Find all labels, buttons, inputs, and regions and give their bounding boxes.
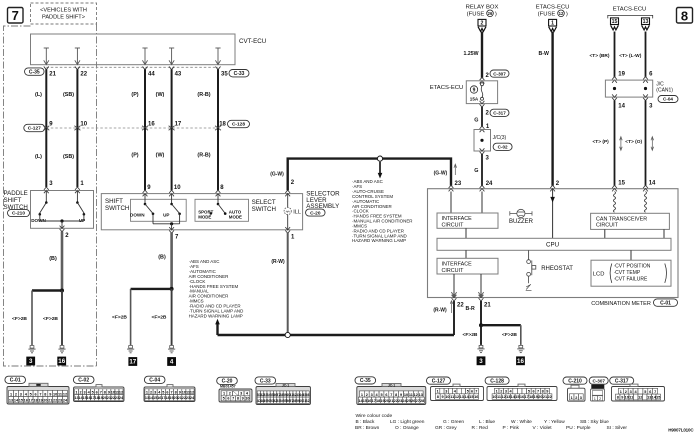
svg-text:(R-B): (R-B) <box>197 92 210 98</box>
svg-text:7: 7 <box>100 390 102 394</box>
wire B-R ground branch <box>481 325 521 345</box>
pin 1 select bottom <box>285 227 295 241</box>
svg-text:3: 3 <box>580 396 582 400</box>
svg-text:2: 2 <box>500 390 502 394</box>
svg-text:1: 1 <box>437 390 439 394</box>
fuse 9 15A <box>470 83 484 102</box>
svg-text:16: 16 <box>474 395 478 399</box>
label SPORT MODE <box>198 210 213 220</box>
connector pinout C-127 <box>427 377 484 401</box>
wire B-W to meter pin 2 <box>539 32 553 186</box>
shift DOWN switch <box>130 194 154 224</box>
svg-text:11: 11 <box>450 395 454 399</box>
pin 19 J/C CAN1 <box>612 72 626 83</box>
wire (W) to shift pin 10 <box>171 128 173 190</box>
svg-text:LCD: LCD <box>593 272 605 278</box>
wire colour label (SB) upper <box>63 92 74 98</box>
svg-text:62: 62 <box>306 399 310 403</box>
svg-text:MODE: MODE <box>229 215 242 220</box>
pin 18 mark C-127 row <box>215 121 227 130</box>
svg-text:V : Violet: V : Violet <box>533 425 553 431</box>
svg-text:CPU: CPU <box>546 242 559 249</box>
svg-text:20: 20 <box>43 399 47 403</box>
svg-text:2: 2 <box>575 396 577 400</box>
label RHEOSTAT <box>541 266 573 272</box>
label (R-W) near pin 22 <box>433 301 452 314</box>
connector pinout C-210 <box>563 377 587 401</box>
junction circle (R-W) <box>285 332 290 337</box>
svg-text:8: 8 <box>44 392 46 396</box>
dashed connector line C-127/C-128 row <box>46 127 218 129</box>
ground shift right <box>167 346 176 366</box>
svg-text:7: 7 <box>390 393 392 397</box>
svg-text:C-04: C-04 <box>663 97 673 102</box>
svg-text:7: 7 <box>475 390 477 394</box>
svg-text:C-128: C-128 <box>232 122 245 128</box>
svg-text:19: 19 <box>38 399 42 403</box>
pin 3 J/C bottom <box>480 148 490 161</box>
svg-text:16: 16 <box>517 358 524 365</box>
system list (select switch) <box>352 179 413 243</box>
svg-text:13: 13 <box>419 393 423 397</box>
wire B-R ground main <box>480 325 482 345</box>
svg-text:ETACS-ECU: ETACS-ECU <box>536 5 570 11</box>
svg-text:INTERFACE: INTERFACE <box>442 216 473 222</box>
connector pinout C-20 <box>217 377 252 402</box>
svg-text:B-R: B-R <box>466 306 475 312</box>
svg-text:9: 9 <box>546 390 548 394</box>
svg-text:(FUSE: (FUSE <box>538 11 556 17</box>
svg-text:1: 1 <box>594 397 596 401</box>
pin 2 C-317 <box>480 101 509 117</box>
svg-text:7: 7 <box>39 392 41 396</box>
svg-text:17: 17 <box>129 359 136 366</box>
svg-text:): ) <box>495 11 497 17</box>
svg-text:23: 23 <box>58 399 62 403</box>
svg-text:5: 5 <box>467 390 469 394</box>
svg-text:C-01: C-01 <box>10 378 21 384</box>
pin 3 below J/C CAN1 <box>643 94 653 109</box>
wire colour label (P) upper <box>131 92 138 98</box>
wire CPU to LCD <box>630 250 632 260</box>
svg-text:17: 17 <box>524 395 528 399</box>
wire (R-B) 35 upper <box>217 69 219 128</box>
pin 8 select <box>216 185 225 197</box>
svg-text:9: 9 <box>621 396 623 400</box>
svg-text:6: 6 <box>96 390 98 394</box>
svg-text:12: 12 <box>414 393 418 397</box>
svg-text:6: 6 <box>166 390 168 394</box>
label AUTO MODE <box>229 210 242 220</box>
svg-text:2: 2 <box>229 392 231 396</box>
pin 10 mark C-127 row <box>74 121 87 130</box>
wire (G-W) select pin 2 to meter pin 23 <box>288 159 451 191</box>
svg-text:CVT-ECU: CVT-ECU <box>239 38 266 45</box>
svg-text:C-35: C-35 <box>360 378 371 384</box>
svg-text:16: 16 <box>58 358 65 365</box>
svg-text:<T> (P): <T> (P) <box>593 139 610 145</box>
interface circuit box lower <box>437 258 498 274</box>
wire (R-B) to select pin 8 <box>217 128 219 190</box>
svg-text:12: 12 <box>638 396 642 400</box>
svg-text:C-128: C-128 <box>490 378 504 384</box>
select mode switch <box>210 194 227 215</box>
svg-text:15: 15 <box>515 395 519 399</box>
label <F>2B paddle left <box>12 316 27 322</box>
svg-text:15: 15 <box>469 395 473 399</box>
svg-text:(P): (P) <box>131 92 138 98</box>
svg-text:CAN TRANSCEIVER: CAN TRANSCEIVER <box>596 216 647 222</box>
svg-text:9: 9 <box>179 390 181 394</box>
pin 14 below J/C CAN1 <box>612 94 626 109</box>
wire (P) 44 upper <box>144 69 146 128</box>
pin 24 label <box>486 181 493 187</box>
switch box SELECTOR LEVER ASSEMBLY <box>101 194 302 230</box>
svg-text:7: 7 <box>654 390 656 394</box>
svg-text:(W): (W) <box>156 153 165 159</box>
svg-text:3: 3 <box>479 358 483 365</box>
pin 3 paddle <box>44 181 53 193</box>
wire (B) from shift pin 7 <box>158 233 171 289</box>
svg-text:·CVT TEMP: ·CVT TEMP <box>614 270 641 276</box>
svg-text:L : Blue: L : Blue <box>479 419 495 425</box>
svg-text:ILL: ILL <box>293 210 301 216</box>
page connector ETACS fuse 12 <box>549 19 557 31</box>
wire colour label (SB) lower <box>63 154 74 160</box>
svg-text:1: 1 <box>496 390 498 394</box>
svg-text:ETACS-ECU: ETACS-ECU <box>613 7 647 13</box>
svg-text:J/C(3): J/C(3) <box>493 135 507 141</box>
svg-text:12: 12 <box>455 395 459 399</box>
svg-text:BR : Brown: BR : Brown <box>355 425 380 431</box>
pin 1 J/C top <box>480 124 490 132</box>
svg-text:C-317: C-317 <box>615 378 629 384</box>
svg-text:8: 8 <box>681 8 688 23</box>
page connector relay box fuse 26 <box>478 19 486 31</box>
pin 2 label meter <box>556 181 560 187</box>
updown arrow O <box>651 137 654 151</box>
wire colour label (P) lower <box>131 153 138 159</box>
svg-text:2: 2 <box>366 393 368 397</box>
label <T> (O) <box>625 139 642 145</box>
svg-text:G : Green: G : Green <box>443 419 464 425</box>
svg-text:23: 23 <box>455 181 462 187</box>
svg-text:SI : Silver: SI : Silver <box>607 425 628 431</box>
wire colour label (W) upper <box>156 92 165 98</box>
wire colour label (L) lower <box>35 154 42 160</box>
svg-text:<T> (BR): <T> (BR) <box>590 53 610 59</box>
svg-text:·CVT FAILURE: ·CVT FAILURE <box>614 277 648 283</box>
svg-text:10: 10 <box>245 397 249 401</box>
svg-text:CIRCUIT: CIRCUIT <box>442 222 465 228</box>
svg-text:COMBINATION METER: COMBINATION METER <box>591 301 651 307</box>
svg-text:6: 6 <box>34 392 36 396</box>
shift switch common bus <box>153 222 180 230</box>
svg-text:W : White: W : White <box>511 419 532 425</box>
svg-text:5: 5 <box>644 390 646 394</box>
label <F>2B meter left <box>463 332 478 338</box>
pin 15 meter <box>618 181 625 187</box>
label (G-W) left <box>270 171 284 177</box>
svg-text:14: 14 <box>649 181 656 187</box>
junction box J/C (CAN1) C-04 <box>605 80 678 102</box>
wire pin2 to CPU with arrow <box>550 189 555 239</box>
svg-text:12: 12 <box>190 390 194 394</box>
svg-text:44: 44 <box>148 72 155 78</box>
svg-text:C-02: C-02 <box>498 144 508 149</box>
svg-text:15: 15 <box>618 181 625 187</box>
svg-text:3: 3 <box>630 390 632 394</box>
svg-text:UP: UP <box>163 213 169 218</box>
wire colour label (R-B) upper <box>197 92 210 98</box>
svg-text:14: 14 <box>618 103 625 109</box>
label <F>2B shift left <box>112 315 127 321</box>
svg-text:18: 18 <box>529 395 533 399</box>
svg-text:<F>2B: <F>2B <box>463 332 478 338</box>
page connector CAN 15 <box>611 18 619 30</box>
svg-text:JC-1: JC-1 <box>388 384 395 388</box>
svg-text:21: 21 <box>48 399 52 403</box>
svg-text:7: 7 <box>232 397 234 401</box>
svg-text:9: 9 <box>49 392 51 396</box>
connector pinout C-02 <box>73 376 124 401</box>
svg-text:5: 5 <box>162 390 164 394</box>
svg-text:19: 19 <box>618 72 625 78</box>
svg-text:22: 22 <box>53 399 57 403</box>
svg-text:C-317: C-317 <box>493 110 506 115</box>
svg-text:Wire colour code: Wire colour code <box>356 413 393 419</box>
svg-text:10: 10 <box>492 395 496 399</box>
wire (R-W) horizontal run <box>218 334 455 336</box>
svg-text:6: 6 <box>227 397 229 401</box>
svg-text:SB : Sky blue: SB : Sky blue <box>580 419 609 425</box>
svg-text:3: 3 <box>29 358 33 365</box>
svg-text:8: 8 <box>104 390 106 394</box>
svg-text:·CVT POSITION: ·CVT POSITION <box>614 264 651 270</box>
ECU box CVT-ECU <box>31 34 267 65</box>
svg-text:MB01457: MB01457 <box>220 385 236 389</box>
wire B-R from pin 21 <box>466 301 482 325</box>
svg-text:18: 18 <box>219 121 226 127</box>
bracket ETACS CAN <box>608 15 653 18</box>
svg-text:<F>2B: <F>2B <box>12 316 27 322</box>
svg-text:GR : Grey: GR : Grey <box>435 425 457 431</box>
svg-text:35: 35 <box>221 72 228 78</box>
svg-text:CIRCUIT: CIRCUIT <box>442 268 465 274</box>
ground paddle right <box>57 346 66 366</box>
svg-text:21: 21 <box>484 302 491 308</box>
svg-text:5: 5 <box>30 392 32 396</box>
svg-text:16: 16 <box>24 399 28 403</box>
svg-text:6: 6 <box>385 393 387 397</box>
svg-text:CIRCUIT: CIRCUIT <box>596 223 619 229</box>
svg-text:2: 2 <box>599 397 601 401</box>
svg-text:12: 12 <box>559 11 564 16</box>
svg-text:21: 21 <box>49 72 56 78</box>
paddle switch common bus <box>40 219 84 228</box>
page connector CAN 13 <box>642 18 650 30</box>
junction circle (G-W) <box>377 156 382 161</box>
svg-text:8: 8 <box>617 396 619 400</box>
svg-text:PU : Purple: PU : Purple <box>566 425 591 431</box>
svg-text:C-35: C-35 <box>29 69 40 75</box>
label SHIFT SWITCH <box>105 198 129 212</box>
svg-text:LG : Light green: LG : Light green <box>390 419 425 425</box>
wire (W) 43 upper <box>171 69 173 128</box>
svg-text:10: 10 <box>174 185 181 191</box>
pin 22 label <box>457 302 464 308</box>
svg-text:BUZZER: BUZZER <box>509 219 534 225</box>
svg-text:24: 24 <box>486 181 493 187</box>
svg-text:8: 8 <box>237 397 239 401</box>
svg-text:1: 1 <box>620 390 622 394</box>
switch box PADDLE SHIFT SWITCH C-210 <box>31 191 94 229</box>
svg-text:SHIFT: SHIFT <box>105 198 123 205</box>
label BUZZER <box>509 219 534 225</box>
svg-text:RHEOSTAT: RHEOSTAT <box>541 266 573 272</box>
connector pinout C-307 <box>589 377 608 401</box>
svg-text:15: 15 <box>19 399 23 403</box>
wire (B) from paddle pin 2 <box>49 232 62 291</box>
svg-text:15: 15 <box>656 396 660 400</box>
connector label C-127 <box>24 124 45 131</box>
svg-text:(B): (B) <box>49 256 57 262</box>
shift UP switch <box>163 194 181 224</box>
svg-text:8: 8 <box>395 393 397 397</box>
connector pinout C-35 <box>355 377 426 405</box>
CVT-ECU output arrow 2 <box>75 48 80 65</box>
svg-text:26: 26 <box>488 11 493 16</box>
pin 44 mark <box>143 67 156 78</box>
connector pinout C-01 <box>5 376 69 404</box>
CVT-ECU output arrow 3 <box>142 48 147 65</box>
svg-text:PADDLE: PADDLE <box>4 190 28 197</box>
label <T> (BR) <box>590 53 610 59</box>
junction B-R ground <box>479 323 483 327</box>
svg-text:2: 2 <box>79 390 81 394</box>
twisted pair squiggle 14 <box>644 192 646 213</box>
svg-text:1: 1 <box>361 393 363 397</box>
svg-text:9: 9 <box>242 397 244 401</box>
dashed connector line C-35/C-33 row <box>46 66 218 68</box>
wire (L) 21 upper <box>45 69 47 128</box>
svg-text:SHIFT: SHIFT <box>4 197 22 204</box>
svg-text:<VEHICLES WITH: <VEHICLES WITH <box>40 8 87 14</box>
paddle UP switch <box>76 191 85 223</box>
svg-text:10: 10 <box>445 395 449 399</box>
svg-text:6: 6 <box>471 390 473 394</box>
pin 14 meter <box>649 181 656 187</box>
ground meter left <box>477 345 486 365</box>
label ETACS-ECU (CAN) <box>613 7 647 13</box>
svg-text:(R-W): (R-W) <box>433 308 447 314</box>
svg-text:11: 11 <box>58 392 62 396</box>
wire (SB) to paddle pin 1 <box>76 128 78 187</box>
pin 7 shift bottom <box>169 227 179 241</box>
svg-text:HAZARD WARNING LAMP: HAZARD WARNING LAMP <box>189 313 243 318</box>
meter box COMBINATION METER C-01 <box>428 189 679 298</box>
wire shift ground branch <box>131 289 172 345</box>
label (G-W) right <box>434 164 457 176</box>
svg-text:17: 17 <box>175 121 182 127</box>
svg-text:11: 11 <box>497 395 501 399</box>
wire colour code legend <box>355 413 627 431</box>
svg-text:43: 43 <box>175 72 182 78</box>
connector pinout C-317 <box>610 377 665 401</box>
svg-text:1.25W: 1.25W <box>464 51 479 57</box>
svg-text:5: 5 <box>223 397 225 401</box>
svg-text:22: 22 <box>457 302 464 308</box>
svg-text:O : Orange: O : Orange <box>395 425 419 431</box>
svg-text:13: 13 <box>9 399 13 403</box>
wire <T>(P) to meter pin 15 <box>614 100 616 185</box>
svg-text:JC-1: JC-1 <box>282 384 289 388</box>
label COMBINATION METER <box>591 299 677 307</box>
connector label C-128 <box>228 120 250 127</box>
svg-text:DOWN: DOWN <box>130 213 145 218</box>
svg-text:(SB): (SB) <box>63 154 74 160</box>
CVT-ECU output arrow 5 <box>215 48 220 65</box>
page marker 7 <box>8 8 24 24</box>
svg-text:C-127: C-127 <box>432 378 446 384</box>
connector pinout C-128 <box>485 377 557 401</box>
svg-text:(SB): (SB) <box>63 92 74 98</box>
junction box J/C(3) C-02 <box>474 130 512 152</box>
svg-text:C-127: C-127 <box>28 126 41 132</box>
svg-text:18: 18 <box>33 399 37 403</box>
wire interface1 to CPU <box>465 228 467 238</box>
svg-text:8: 8 <box>175 390 177 394</box>
svg-text:<F>2B: <F>2B <box>112 315 127 321</box>
svg-text:C-33: C-33 <box>260 378 271 384</box>
svg-text:3: 3 <box>154 390 156 394</box>
rheostat symbol <box>526 250 536 290</box>
wire paddle ground branch <box>32 291 62 346</box>
pin 21 mark <box>44 67 57 78</box>
svg-text:(FUSE: (FUSE <box>467 11 485 17</box>
connector label C-210 (paddle) <box>8 209 30 216</box>
svg-text:SWITCH: SWITCH <box>252 206 276 213</box>
svg-text:4: 4 <box>170 359 174 366</box>
svg-text:(L): (L) <box>35 92 42 98</box>
svg-text:28: 28 <box>420 399 424 403</box>
svg-text:C-04: C-04 <box>149 378 160 384</box>
drawing number <box>668 427 694 432</box>
wire G fuse to J/C(3) <box>474 107 482 127</box>
svg-text:3: 3 <box>505 390 507 394</box>
connector pinout C-04 <box>144 376 195 401</box>
svg-text:C-210: C-210 <box>12 211 25 217</box>
pin 22 mark <box>75 67 88 78</box>
pin 6 J/C CAN1 <box>643 72 653 83</box>
label RELAY BOX (FUSE 26) <box>466 5 499 18</box>
buzzer symbol <box>510 209 532 217</box>
svg-text:1: 1 <box>75 390 77 394</box>
svg-text:2: 2 <box>15 392 17 396</box>
wire (P) to shift pin 9 <box>144 128 146 190</box>
svg-text:9: 9 <box>400 393 402 397</box>
ground paddle left <box>26 346 35 366</box>
svg-text:2: 2 <box>625 390 627 394</box>
svg-text:SELECT: SELECT <box>252 199 276 206</box>
wire shift ground main <box>171 289 173 345</box>
inner box select SPORT/AUTO <box>195 199 249 221</box>
svg-text:H9007L010C: H9007L010C <box>668 427 694 432</box>
svg-text:12: 12 <box>119 390 123 394</box>
wire arrow into right list <box>378 162 383 179</box>
pin 2 select top <box>285 180 295 196</box>
svg-text:RELAY BOX: RELAY BOX <box>466 5 499 11</box>
